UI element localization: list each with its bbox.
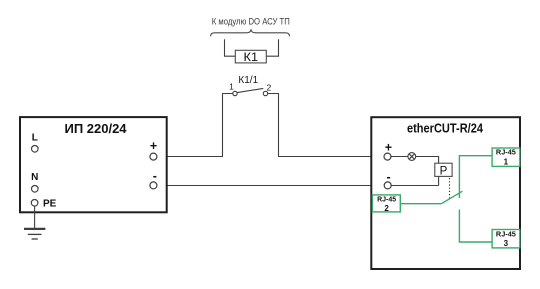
green wire: up to RJ-45 1 <box>459 156 492 198</box>
wire: coil K1 left lead <box>225 39 236 56</box>
wire: PE to ground <box>34 206 36 229</box>
switch K1/1 contact 1 <box>233 91 237 95</box>
switch K1/1 contact 2 <box>263 91 267 95</box>
svg-text:2: 2 <box>267 82 272 92</box>
svg-text:К модулю DO АСУ ТП: К модулю DO АСУ ТП <box>212 17 290 27</box>
green wire: down to RJ-45 3 <box>459 210 492 243</box>
svg-text:1: 1 <box>504 158 509 167</box>
terminal PE <box>31 200 38 207</box>
svg-text:-: - <box>153 169 157 183</box>
terminal N <box>32 186 39 193</box>
svg-text:RJ-45: RJ-45 <box>377 196 396 203</box>
terminal - (PSU) <box>150 182 157 189</box>
svg-text:К1/1: К1/1 <box>238 75 258 86</box>
wire: + rail from PSU up to switch contact 1 <box>157 94 233 157</box>
port RJ-45 1 <box>492 148 520 166</box>
svg-text:RJ-45: RJ-45 <box>496 150 516 157</box>
svg-text:Р: Р <box>440 165 448 177</box>
terminal L <box>32 146 39 153</box>
port RJ-45 2 <box>372 195 400 212</box>
relay coil K1 <box>235 50 266 63</box>
switch K1/1 blade <box>237 88 263 92</box>
svg-text:+: + <box>385 141 392 155</box>
svg-text:ИП 220/24: ИП 220/24 <box>64 121 127 136</box>
wire: minus terminal to relay P branch <box>391 185 438 187</box>
svg-text:PE: PE <box>43 199 57 210</box>
svg-text:N: N <box>31 172 38 183</box>
svg-text:RJ-45: RJ-45 <box>496 231 516 238</box>
dotted actuation link from P to green switch <box>449 178 451 199</box>
ground <box>24 229 45 239</box>
relay P <box>435 163 452 176</box>
svg-text:L: L <box>32 133 38 144</box>
green wire: RJ-45 2 to switch common <box>400 203 441 205</box>
terminal - (etherCUT) <box>384 182 391 189</box>
svg-text:2: 2 <box>384 204 389 213</box>
svg-text:1: 1 <box>229 82 234 92</box>
wire: relay P to minus wire <box>438 177 440 186</box>
wire: minus wire PSU to etherCUT <box>157 185 384 187</box>
brace <box>211 29 290 36</box>
wire: lamp to relay P <box>416 157 439 164</box>
wire: + terminal to lamp <box>390 156 408 158</box>
svg-text:+: + <box>150 139 157 153</box>
wire: coil K1 right lead <box>266 39 278 56</box>
svg-text:К1: К1 <box>244 50 259 64</box>
indicator lamp <box>408 153 416 161</box>
terminal + (PSU) <box>150 153 157 160</box>
wire: switch contact 2 down to + rail toward etherCUT <box>268 94 384 157</box>
power supply box ИП 220/24 <box>20 117 167 212</box>
terminal + (etherCUT) <box>384 153 391 160</box>
green switch blade <box>441 191 462 204</box>
svg-text:3: 3 <box>504 239 509 248</box>
device box etherCUT-R/24 <box>371 117 520 269</box>
svg-text:etherCUT-R/24: etherCUT-R/24 <box>407 120 484 135</box>
port RJ-45 3 <box>492 230 520 248</box>
